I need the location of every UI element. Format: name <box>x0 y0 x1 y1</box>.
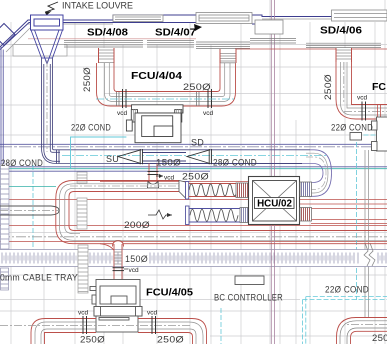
tray break symbol <box>364 243 375 266</box>
silencer upper right <box>300 182 312 197</box>
svg-text:0mm CABLE TRAY: 0mm CABLE TRAY <box>0 273 78 284</box>
cone upper <box>179 181 186 199</box>
HCU loop left U outer <box>56 181 387 244</box>
black arrowhead near SD/4/07 <box>194 24 202 31</box>
duct flange ticks right <box>197 92 200 107</box>
flex lower <box>190 209 238 221</box>
red line under band <box>235 48 387 50</box>
svg-text:28Ø COND: 28Ø COND <box>1 158 43 168</box>
corner diamond <box>0 24 15 46</box>
blue beam lines <box>0 144 387 171</box>
white rect left of funnel <box>13 45 67 57</box>
svg-text:INTAKE LOUVRE: INTAKE LOUVRE <box>62 1 133 11</box>
gray double pipe right <box>0 150 387 317</box>
FCU/4/05 unit <box>90 280 142 333</box>
svg-text:vcd: vcd <box>203 110 214 117</box>
left riser ladder <box>1 164 10 290</box>
bottom-right elbow <box>337 318 387 344</box>
tray ticks <box>2 253 386 264</box>
SU duct run <box>120 150 310 164</box>
intake leader arrow <box>45 2 58 12</box>
150 stub with vcd <box>149 164 157 183</box>
svg-text:FC: FC <box>372 81 386 93</box>
intake elbow to SU duct <box>42 148 121 164</box>
silencer lower left <box>240 208 250 223</box>
svg-text:FCU/4/04: FCU/4/04 <box>131 70 182 82</box>
zigzag leader mid <box>148 210 172 219</box>
white box top right <box>255 20 283 34</box>
silencer upper left <box>236 183 250 198</box>
slot diffuser box 3 <box>332 10 387 21</box>
lower branch 200 duct <box>0 206 59 215</box>
svg-text:22Ø COND: 22Ø COND <box>325 285 369 295</box>
cable tray band <box>0 250 387 267</box>
FCU/4/06 drop box right <box>336 48 352 62</box>
svg-text:200Ø: 200Ø <box>124 220 150 231</box>
duct flange ticks left <box>117 92 120 107</box>
long red pipe lines mid <box>0 182 387 242</box>
svg-text:250Ø: 250Ø <box>80 335 105 344</box>
transition 2 <box>187 149 212 164</box>
silencer lower right <box>300 208 312 222</box>
svg-text:250Ø: 250Ø <box>323 74 334 100</box>
upper branch duct <box>79 181 179 192</box>
vcd damper right <box>208 89 212 108</box>
lower branch into HCU <box>186 206 190 225</box>
FCU/4/04 right drop box <box>220 49 236 63</box>
transition 1 <box>118 149 143 164</box>
svg-text:28Ø COND: 28Ø COND <box>213 158 257 168</box>
funnel taper <box>31 30 63 64</box>
svg-text:SD/4/08: SD/4/08 <box>87 27 128 39</box>
louvre hatched band under wall <box>64 39 381 49</box>
svg-text:22Ø COND: 22Ø COND <box>331 123 373 133</box>
flange upper <box>186 182 189 200</box>
U-bend right <box>302 150 332 197</box>
svg-text:250Ø: 250Ø <box>183 82 211 93</box>
svg-text:vcd: vcd <box>78 310 89 317</box>
svg-text:250Ø: 250Ø <box>182 172 209 183</box>
svg-text:250Ø: 250Ø <box>82 67 93 92</box>
vcd damper left <box>123 89 127 108</box>
FCU/4/06 duct <box>336 62 387 119</box>
svg-text:250Ø: 250Ø <box>157 335 184 344</box>
svg-text:SD/4/06: SD/4/06 <box>320 25 362 37</box>
FCU/4/04 right duct <box>217 63 236 106</box>
vertical ladder strip mid <box>77 172 88 293</box>
FCU/4/04 unit <box>126 105 183 143</box>
flex upper <box>189 184 237 196</box>
cyan centerline through FCU duct <box>96 98 236 100</box>
svg-text:150Ø: 150Ø <box>125 254 148 265</box>
svg-text:vcd: vcd <box>117 110 128 117</box>
svg-text:SU: SU <box>106 154 119 164</box>
slot diffuser box 2 <box>196 13 252 24</box>
HCU/02 unit <box>249 177 300 225</box>
FCU/4/04 left duct drop <box>97 63 222 106</box>
cyan condensate dash lines <box>33 135 387 344</box>
FCU/4/06 unit edge <box>350 117 387 151</box>
vcd damper right unit <box>362 102 366 121</box>
BC controller box <box>235 276 264 285</box>
vcd dampers bottom <box>83 316 156 334</box>
svg-text:vcd: vcd <box>147 310 158 317</box>
svg-text:250: 250 <box>372 333 387 344</box>
funnel louvre <box>31 15 64 30</box>
slot diffuser box 1 <box>113 15 163 22</box>
svg-text:SD/4/07: SD/4/07 <box>155 27 196 39</box>
150 drop to FCU/4/05 <box>100 244 114 250</box>
top wall <box>0 15 387 50</box>
svg-text:HCU/02: HCU/02 <box>257 199 292 210</box>
column lines top <box>270 0 272 344</box>
svg-text:FCU/4/05: FCU/4/05 <box>146 287 193 299</box>
svg-text:22Ø COND: 22Ø COND <box>71 123 111 133</box>
intake vertical duct <box>42 58 53 150</box>
upper flex duct lines <box>189 184 236 197</box>
svg-text:150Ø: 150Ø <box>156 158 181 168</box>
svg-text:vcd: vcd <box>357 95 368 102</box>
svg-text:BC CONTROLLER: BC CONTROLLER <box>214 293 283 303</box>
svg-text:SD: SD <box>191 138 204 148</box>
bottom-left duct <box>31 319 207 344</box>
teal lines <box>0 168 387 170</box>
svg-text:vcd: vcd <box>129 267 140 274</box>
FCU/4/04 left drop box <box>99 48 115 63</box>
